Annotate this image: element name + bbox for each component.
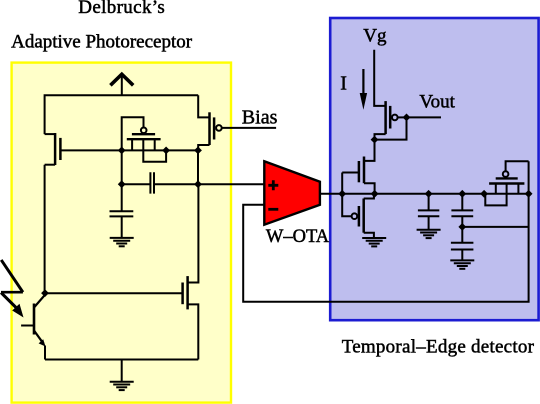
op-amp U1 W-OTA body — [264, 161, 320, 224]
adaptive element M3 right lead — [154, 139, 156, 150]
capacitor C5 plates — [451, 243, 474, 250]
node G junction — [338, 190, 346, 198]
node J junction — [458, 190, 466, 198]
capacitor C4 plates — [451, 210, 473, 216]
node N junction — [371, 136, 379, 144]
node K junction — [480, 190, 488, 198]
wire node D to OTA plus input — [198, 183, 264, 185]
wire left vertical M1 to photodiode node — [44, 165, 46, 293]
yellow box Adaptive Photoreceptor — [12, 63, 231, 403]
node H2 junction — [371, 190, 379, 198]
wire Vg — [374, 50, 385, 106]
ground G1 — [110, 216, 134, 246]
wire OTA output — [320, 193, 342, 195]
wire node A to node E — [121, 150, 123, 184]
wire node B to node C — [166, 149, 198, 151]
adaptive element M3 source lead — [131, 139, 133, 150]
transistor P2 pMOS — [359, 194, 374, 238]
node F junction — [41, 289, 49, 297]
transistor P1 pMOS — [375, 101, 391, 140]
transistor P2 gate bubble — [352, 213, 358, 219]
wire node A to node B — [122, 149, 166, 151]
capacitor C5 stem — [461, 227, 463, 243]
svg-text:Temporal–Edge detector: Temporal–Edge detector — [342, 336, 535, 357]
ground G4 — [417, 216, 441, 238]
wire node N to N1 drain — [364, 140, 375, 161]
adaptive element M3 gate bubble — [141, 128, 147, 134]
node B junction — [162, 147, 170, 155]
adaptive element M5 right lead — [517, 184, 519, 194]
adaptive element M3 gate loop wire — [122, 117, 144, 150]
transistor M1 left nFET — [45, 133, 122, 165]
capacitor C1 left wire — [122, 183, 151, 185]
phototransistor Q1 emitter arrowhead — [39, 339, 46, 346]
svg-text:Adaptive Photoreceptor: Adaptive Photoreceptor — [11, 31, 193, 52]
wire node J2 to feedback vertical — [462, 226, 528, 228]
op-amp plus sign — [268, 180, 278, 190]
op-amp minus sign — [268, 208, 278, 211]
phototransistor Q1 emitter diagonal — [34, 331, 44, 344]
wire emitter to bottom rail — [44, 346, 46, 360]
wire node C to node D — [197, 150, 199, 184]
transistor P1 gate bubble — [392, 115, 398, 121]
svg-text:Delbruck’s: Delbruck’s — [78, 0, 165, 18]
wire node M down to node N — [375, 117, 407, 139]
phototransistor Q1 base bar — [33, 304, 36, 335]
node E junction — [118, 180, 126, 188]
svg-text:Vout: Vout — [419, 92, 455, 113]
node J2 junction — [458, 223, 466, 231]
svg-text:W–OTA: W–OTA — [266, 227, 330, 247]
ground G3 — [362, 238, 386, 246]
adaptive element M5 channel — [489, 182, 524, 184]
current arrow I stem — [362, 69, 364, 97]
transistor M4 Bias pMOS — [198, 95, 214, 150]
adaptive element M5 left lead — [495, 184, 497, 194]
light arrow lightning bolt — [1, 260, 23, 310]
adaptive element M3 gate plate — [132, 133, 155, 135]
node M junction — [403, 114, 411, 122]
node L junction — [525, 190, 533, 198]
wire main output rail — [342, 193, 528, 195]
adaptive element M5 gate bubble — [503, 171, 509, 177]
light arrowhead — [12, 304, 23, 318]
wire bubble to node M — [398, 116, 407, 118]
adaptive element M3 channel — [127, 138, 161, 140]
ground G2 — [110, 360, 134, 391]
capacitor C1 plates — [150, 172, 154, 193]
node I junction — [425, 190, 433, 198]
phototransistor Q1 base lead — [21, 325, 34, 327]
current arrow I head — [360, 93, 367, 110]
svg-text:Bias: Bias — [242, 107, 278, 129]
wire Vout — [407, 116, 442, 118]
adaptive element M3 drain S-bend lead — [143, 139, 166, 162]
wire top rail — [45, 95, 199, 134]
transistor M4 gate bubble — [216, 125, 222, 131]
transistor M2 lower nFET — [45, 276, 198, 359]
transistor N1 nFET — [342, 157, 374, 194]
capacitor C3 stem — [428, 194, 430, 211]
capacitor C2 plates — [110, 211, 134, 216]
wire gate bus vertical — [342, 173, 351, 217]
power Vdd arrow — [110, 74, 133, 95]
wire Bias gate lead — [222, 127, 276, 129]
svg-text:I: I — [340, 73, 347, 95]
phototransistor Q1 collector diagonal — [34, 295, 45, 308]
node D junction — [194, 180, 202, 188]
wire bottom rail — [45, 359, 198, 361]
ground G5 — [450, 250, 474, 269]
svg-text:Vg: Vg — [363, 26, 387, 47]
blue box Temporal-Edge detector — [330, 18, 538, 320]
adaptive element M5 gate plate — [496, 177, 518, 179]
wire C4 to node J2 — [461, 216, 463, 227]
adaptive element M5 S-bend lead — [485, 184, 506, 206]
adaptive element M5 gate wire — [506, 161, 529, 171]
capacitor C2 stem — [121, 184, 123, 211]
capacitor C1 right wire — [154, 183, 198, 185]
wire OTA minus feedback loop — [243, 161, 528, 301]
capacitor C4 stem — [461, 194, 463, 211]
capacitor C3 plates — [418, 210, 439, 216]
wire node D down to M2 — [188, 184, 199, 282]
node C junction — [194, 147, 202, 155]
node A junction — [118, 147, 126, 155]
